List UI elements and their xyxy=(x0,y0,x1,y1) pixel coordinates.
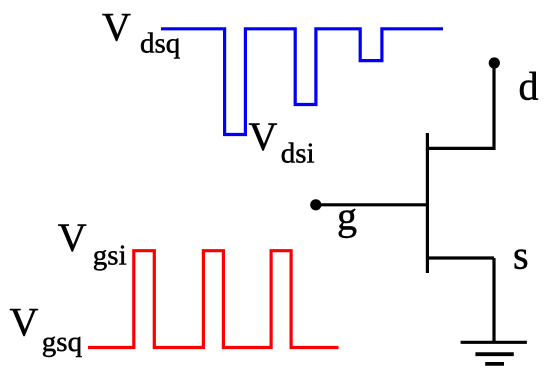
label Vgsi xyxy=(58,215,127,272)
svg-text:s: s xyxy=(513,233,529,278)
svg-text:V: V xyxy=(58,215,87,260)
label Vgsq xyxy=(10,299,83,358)
svg-text:V: V xyxy=(102,5,131,50)
svg-text:gsi: gsi xyxy=(93,240,127,272)
transistor Q1 drain tap wire xyxy=(427,147,494,150)
label Vdsi xyxy=(249,114,315,169)
svg-text:gsq: gsq xyxy=(42,326,82,358)
node d terminal dot xyxy=(489,57,500,68)
svg-text:V: V xyxy=(249,114,278,159)
wire source to ground xyxy=(492,258,495,342)
svg-text:V: V xyxy=(10,299,39,344)
svg-text:d: d xyxy=(519,64,539,109)
transistor Q1 source tap wire xyxy=(427,256,494,259)
wire drain lead xyxy=(492,63,495,150)
svg-text:dsi: dsi xyxy=(281,137,315,169)
Vds drain-voltage waveform (blue) xyxy=(161,29,443,135)
transistor Q1 channel bar xyxy=(426,133,429,273)
wire gate lead xyxy=(316,203,428,206)
label Vdsq xyxy=(102,5,180,60)
Vgs gate-voltage waveform (red) xyxy=(88,251,339,348)
ground xyxy=(461,342,527,364)
svg-text:g: g xyxy=(337,194,357,239)
svg-text:dsq: dsq xyxy=(140,27,180,59)
node g terminal dot xyxy=(310,199,321,210)
